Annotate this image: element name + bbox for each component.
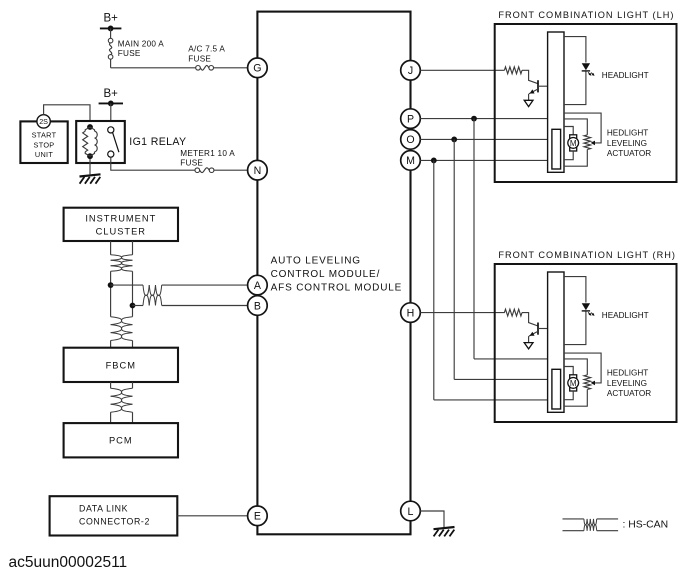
wire fusible link to corner	[110, 59, 112, 68]
wire braid3 to PCM (left)	[110, 412, 112, 423]
wire motor top (LH)	[564, 127, 573, 135]
svg-text:LEVELING: LEVELING	[607, 379, 647, 388]
svg-text:A: A	[254, 280, 262, 292]
transistor Q (LH)	[529, 80, 548, 100]
svg-text:B+: B+	[104, 88, 119, 100]
junction CAN-L tap	[130, 303, 136, 309]
twisted pair braid horizontal	[143, 285, 162, 305]
svg-text:ACTUATOR: ACTUATOR	[607, 389, 651, 398]
LED headlight (LH)	[582, 63, 595, 76]
wire pin P to LH connector	[420, 118, 547, 120]
wire twisted pair IC down (left)	[110, 241, 112, 255]
front combination light (RH) box	[495, 264, 677, 422]
pin M	[401, 151, 421, 171]
wire relay coil to ground	[89, 159, 91, 175]
wire potentiometer wiper (RH)	[564, 353, 601, 385]
HS-CAN legend twisted pair	[563, 519, 619, 531]
svg-text:M: M	[406, 155, 415, 167]
start stop unit box	[20, 121, 67, 163]
label A/C 7.5 A FUSE	[188, 45, 225, 64]
svg-text:UNIT: UNIT	[35, 150, 53, 159]
svg-text:FUSE: FUSE	[180, 159, 203, 168]
wire P branch into RH connector	[474, 358, 548, 360]
connector inner body (RH)	[552, 369, 561, 409]
relay IG1 box	[76, 121, 125, 163]
label HS-CAN	[623, 520, 669, 531]
svg-text:ACTUATOR: ACTUATOR	[607, 149, 651, 158]
wire braid2 to FBCM (right)	[132, 341, 134, 348]
svg-text:AFS CONTROL MODULE: AFS CONTROL MODULE	[271, 283, 403, 294]
wire potentiometer top (RH)	[564, 359, 587, 375]
label MAIN 200 A FUSE	[118, 39, 164, 58]
wire resistor to transistor base (RH)	[522, 313, 538, 326]
resistor (LH driver base)	[504, 67, 522, 74]
wire twisted pair IC down (right)	[132, 241, 134, 255]
wire braid1 to braid2 (right)	[132, 271, 134, 316]
svg-text:CLUSTER: CLUSTER	[96, 226, 146, 236]
front combination light (RH) title	[498, 250, 676, 260]
pin E	[248, 506, 268, 526]
svg-text:E: E	[254, 511, 261, 523]
wire resistor to transistor base (LH)	[522, 70, 538, 83]
wire braid to pin A	[162, 284, 248, 286]
svg-text:IG1 RELAY: IG1 RELAY	[129, 136, 186, 148]
twisted pair braid 1	[111, 255, 133, 271]
wire pin M to LH connector	[420, 159, 552, 161]
instrument cluster box	[64, 208, 178, 241]
front combination light (LH) title	[498, 10, 674, 20]
wire O branch down to RH	[453, 139, 455, 379]
svg-text:HEADLIGHT: HEADLIGHT	[602, 71, 649, 80]
pin N	[248, 160, 268, 180]
wire DLC-2 to pin E	[177, 515, 247, 517]
label HEDLIGHT LEVELING ACTUATOR (RH)	[607, 369, 651, 399]
svg-text:2S: 2S	[39, 117, 48, 126]
wire B+ down to fusible link	[110, 28, 112, 38]
pin G	[248, 58, 268, 78]
wire B+ to relay switch	[110, 103, 112, 126]
svg-text:FRONT COMBINATION LIGHT (LH): FRONT COMBINATION LIGHT (LH)	[498, 10, 674, 20]
connector strip (LH)	[548, 32, 564, 172]
svg-text:N: N	[254, 165, 262, 177]
svg-text:HEDLIGHT: HEDLIGHT	[607, 129, 648, 138]
wire corner to fuse A/C	[111, 67, 196, 69]
wire O branch into RH connector	[454, 378, 552, 380]
ground (pin L)	[434, 527, 455, 536]
ground (relay coil)	[80, 174, 101, 183]
svg-text:L: L	[408, 506, 414, 518]
svg-text:PCM: PCM	[109, 436, 133, 446]
wire pin H to RH resistor	[420, 312, 505, 314]
twisted pair braid 3	[111, 388, 133, 412]
svg-text:FUSE: FUSE	[188, 55, 211, 64]
front combination light (LH) box	[495, 24, 677, 182]
svg-text:H: H	[407, 307, 415, 319]
data link connector-2 box	[50, 496, 178, 535]
svg-text:O: O	[406, 134, 414, 146]
pin 2S of start stop unit	[37, 115, 50, 128]
svg-text:METER1 10 A: METER1 10 A	[180, 149, 235, 158]
wire M branch into RH connector	[434, 399, 552, 401]
connector inner body (LH)	[552, 129, 561, 169]
wire potentiometer bottom (LH)	[564, 150, 587, 167]
pin H	[401, 303, 421, 323]
svg-text:CONNECTOR-2: CONNECTOR-2	[79, 516, 150, 526]
svg-text:AUTO LEVELING: AUTO LEVELING	[271, 256, 361, 267]
junction on P wire	[471, 116, 477, 122]
pin L	[401, 501, 421, 521]
svg-text:J: J	[408, 65, 413, 77]
transistor Q (RH)	[529, 323, 548, 343]
relay coil with parallel resistor	[83, 124, 98, 159]
pin P	[401, 109, 421, 129]
fuse A/C 7.5 A symbol	[196, 65, 214, 70]
wire braid1 to braid2 (left)	[110, 271, 112, 316]
node B+ (battery feed 2) label	[104, 88, 119, 100]
svg-text:FRONT COMBINATION LIGHT (RH): FRONT COMBINATION LIGHT (RH)	[498, 250, 676, 260]
svg-text:LEVELING: LEVELING	[607, 139, 647, 148]
wire motor bottom (RH)	[564, 391, 573, 400]
wire fuse to pin N	[214, 169, 248, 171]
potentiometer (RH)	[584, 375, 591, 390]
svg-text:FUSE: FUSE	[118, 49, 141, 58]
LED headlight (RH)	[582, 303, 595, 316]
wire FBCM to braid3 (left)	[110, 382, 112, 388]
ground triangle (RH transistor emitter)	[524, 343, 533, 349]
ground triangle (LH transistor emitter)	[524, 100, 533, 106]
svg-text:B+: B+	[104, 13, 119, 25]
wire FBCM to braid3 (right)	[132, 382, 134, 388]
label AUTO LEVELING CONTROL MODULE	[271, 256, 403, 294]
wire pin J to LH resistor	[420, 69, 504, 71]
potentiometer (LH)	[584, 135, 591, 150]
auto leveling control module box	[257, 12, 410, 535]
junction on M wire	[431, 158, 437, 164]
wire CAN-L tap to braid	[133, 305, 144, 307]
svg-text:P: P	[407, 113, 414, 125]
wire braid2 to FBCM (left)	[110, 341, 112, 348]
wire 2S to relay coil	[44, 105, 90, 127]
svg-text:FBCM: FBCM	[106, 360, 136, 370]
pin J	[401, 61, 421, 81]
wire headlight loop (LH)	[564, 37, 586, 105]
fuse METER1 10 A symbol	[195, 168, 214, 173]
svg-text:B: B	[254, 300, 261, 312]
node B+ bar and junction 2	[99, 101, 123, 107]
wire fuse to pin G	[214, 67, 248, 69]
svg-text:MAIN 200 A: MAIN 200 A	[118, 39, 164, 48]
svg-text:ac5uun00002511: ac5uun00002511	[9, 554, 128, 571]
svg-text:STOP: STOP	[34, 140, 55, 149]
wire potentiometer wiper (LH)	[564, 113, 601, 145]
figure id ac5uun00002511	[9, 554, 128, 571]
label METER1 10 A FUSE	[180, 149, 235, 168]
relay switch	[108, 127, 119, 157]
pin O	[401, 130, 421, 150]
node B+ (battery feed 1) label	[104, 13, 119, 25]
wire pin L to ground	[420, 511, 444, 527]
wire motor bottom (LH)	[564, 151, 573, 160]
wire potentiometer top (LH)	[564, 119, 587, 135]
connector strip (RH)	[548, 272, 564, 412]
svg-text:G: G	[253, 63, 261, 75]
junction CAN-H tap	[108, 282, 114, 288]
wire pin O to LH connector	[420, 138, 552, 140]
svg-text:M: M	[570, 139, 577, 148]
node B+ bar and junction	[100, 26, 122, 32]
label HEADLIGHT (RH)	[602, 311, 649, 320]
motor M (RH)	[568, 375, 579, 391]
wire braid to pin B	[162, 305, 248, 307]
wire motor top (RH)	[564, 367, 573, 375]
svg-text:INSTRUMENT: INSTRUMENT	[85, 214, 156, 224]
wire potentiometer bottom (RH)	[564, 390, 587, 407]
fusible link MAIN 200 A FUSE symbol	[108, 38, 113, 59]
svg-text:M: M	[570, 379, 577, 388]
svg-text:DATA LINK: DATA LINK	[79, 503, 128, 513]
svg-text:HEDLIGHT: HEDLIGHT	[607, 369, 648, 378]
svg-text:CONTROL MODULE/: CONTROL MODULE/	[271, 269, 381, 280]
wire headlight loop (RH)	[564, 277, 586, 345]
wire P branch down to RH	[473, 119, 475, 359]
resistor (RH driver base)	[504, 309, 522, 316]
svg-text:A/C 7.5 A: A/C 7.5 A	[188, 45, 225, 54]
label IG1 RELAY	[129, 136, 186, 148]
FBCM box	[64, 348, 178, 382]
wire relay switch to METER1 fuse	[111, 157, 195, 170]
junction on O wire	[451, 137, 457, 143]
PCM box	[64, 423, 178, 457]
wire braid3 to PCM (right)	[132, 412, 134, 423]
label HEDLIGHT LEVELING ACTUATOR (LH)	[607, 129, 651, 159]
label HEADLIGHT (LH)	[602, 71, 649, 80]
twisted pair braid 2	[111, 317, 133, 341]
motor M (LH)	[568, 135, 579, 151]
wire CAN-H tap to braid	[111, 284, 143, 286]
wire M branch down to RH	[433, 160, 435, 400]
svg-text:HEADLIGHT: HEADLIGHT	[602, 311, 649, 320]
pin A	[248, 275, 268, 295]
svg-text:: HS-CAN: : HS-CAN	[623, 520, 669, 531]
pin B	[248, 296, 268, 316]
svg-text:START: START	[32, 130, 57, 139]
